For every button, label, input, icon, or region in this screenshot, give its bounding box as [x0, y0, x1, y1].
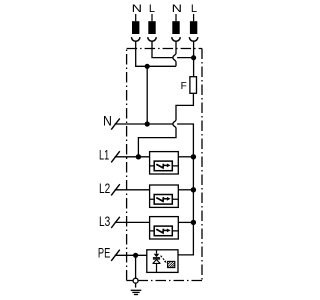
svg-text:N: N	[103, 113, 112, 128]
svg-text:L3: L3	[99, 214, 110, 229]
svg-text:L2: L2	[99, 181, 110, 196]
svg-text:F: F	[181, 81, 187, 92]
svg-text:N: N	[132, 3, 142, 15]
svg-text:N: N	[172, 3, 182, 15]
svg-text:L: L	[149, 3, 155, 15]
svg-text:L1: L1	[99, 147, 109, 162]
svg-text:L: L	[191, 3, 197, 15]
svg-text:PE: PE	[98, 246, 110, 261]
